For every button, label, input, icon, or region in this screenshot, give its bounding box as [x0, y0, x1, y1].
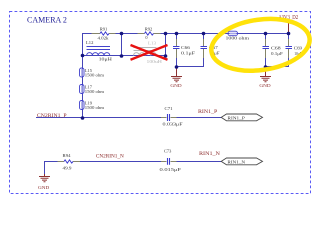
- capacitor C73 (series): [168, 158, 170, 165]
- node C68 top: [264, 32, 268, 36]
- node row P junction: [81, 116, 85, 120]
- inductor L12: [87, 47, 111, 56]
- svg-text:R92: R92: [145, 26, 153, 31]
- wire C66 C67 verticals and bottom rail: [176, 33, 204, 67]
- svg-text:C71: C71: [165, 106, 173, 111]
- svg-text:RIN1_P: RIN1_P: [227, 117, 245, 121]
- svg-text:RIN1_N: RIN1_N: [227, 161, 245, 166]
- svg-text:GND: GND: [38, 186, 50, 191]
- wire row N: [44, 161, 222, 176]
- node C67 top: [202, 32, 206, 36]
- node L13 right: [164, 54, 168, 58]
- svg-text:0: 0: [145, 35, 147, 40]
- resistor R94: [64, 160, 73, 163]
- capacitor C71 (series): [168, 114, 170, 121]
- svg-text:0.033μF: 0.033μF: [163, 122, 183, 127]
- wire vertical node B: [121, 33, 123, 56]
- wire left vertical: [82, 33, 84, 118]
- svg-text:R94: R94: [62, 153, 71, 158]
- svg-text:CN2RIN1_N: CN2RIN1_N: [96, 153, 124, 159]
- junction dots: [81, 32, 291, 120]
- port RIN1_P: [221, 114, 262, 121]
- node R92/C66 top: [164, 32, 168, 36]
- svg-text:49.9: 49.9: [62, 167, 72, 172]
- ferrite bead L9: [230, 33, 237, 35]
- node R91/R92 top: [120, 32, 124, 36]
- svg-text:C66: C66: [181, 46, 191, 50]
- port RIN1_N: [221, 158, 262, 165]
- capacitor C68: [263, 47, 270, 49]
- inductor L13 (not stuffed, gray): [134, 48, 157, 56]
- svg-text:1500 ohm: 1500 ohm: [85, 105, 105, 110]
- svg-text:1000 ohm: 1000 ohm: [226, 36, 250, 41]
- svg-text:GND: GND: [170, 84, 182, 89]
- capacitor C69: [286, 47, 293, 49]
- sheet border dashed: [10, 12, 311, 194]
- ground (below C66): [171, 67, 182, 82]
- svg-text:100uH: 100uH: [147, 60, 163, 64]
- svg-text:C73: C73: [164, 149, 171, 154]
- svg-text:4.02k: 4.02k: [97, 36, 109, 41]
- svg-text:0.1μF: 0.1μF: [181, 51, 195, 56]
- node L12 left: [81, 54, 85, 58]
- node C66 top: [175, 32, 179, 36]
- DNI red X over L13: [131, 45, 168, 60]
- svg-text:0.1μF: 0.1μF: [271, 52, 283, 57]
- svg-text:1500 ohm: 1500 ohm: [85, 89, 105, 94]
- resistor R92: [145, 32, 154, 35]
- svg-text:L13: L13: [148, 42, 157, 47]
- wire row P: [36, 117, 221, 119]
- svg-text:1500 ohm: 1500 ohm: [85, 73, 105, 78]
- ferrite bead L15: [81, 69, 83, 76]
- svg-text:C68: C68: [271, 46, 281, 51]
- ferrite bead L19: [81, 102, 83, 109]
- svg-text:CN2RIN1_P: CN2RIN1_P: [37, 113, 67, 119]
- svg-text:10μH: 10μH: [99, 57, 113, 62]
- highlight yellow ellipse: [208, 13, 313, 77]
- wire C68 C69 verticals and bottom rail: [265, 33, 289, 67]
- wire L12 row: [82, 55, 166, 57]
- wire vertical node C: [165, 33, 167, 56]
- ground (below C68): [260, 67, 271, 82]
- capacitor C67: [201, 47, 208, 49]
- node C69 top: [287, 32, 291, 36]
- ferrite bead L17: [81, 86, 83, 93]
- node C66 gnd: [175, 65, 179, 69]
- component leads gray: [58, 34, 289, 162]
- node C68 gnd: [264, 65, 268, 69]
- capacitor C66: [173, 47, 180, 49]
- svg-text:0.015μF: 0.015μF: [160, 168, 182, 173]
- svg-text:RIN1_N: RIN1_N: [199, 152, 220, 157]
- svg-text:CAMERA 2: CAMERA 2: [27, 15, 67, 24]
- svg-text:RIN1_P: RIN1_P: [198, 110, 217, 115]
- resistor R91: [100, 32, 109, 35]
- wire top rail: [36, 33, 289, 176]
- node L12 right: [120, 54, 124, 58]
- ground (bottom left): [39, 174, 50, 182]
- svg-text:R91: R91: [100, 26, 108, 31]
- svg-text:GND: GND: [259, 84, 271, 89]
- power net stub A3V3_D2: [288, 22, 290, 34]
- svg-text:L12: L12: [86, 40, 93, 45]
